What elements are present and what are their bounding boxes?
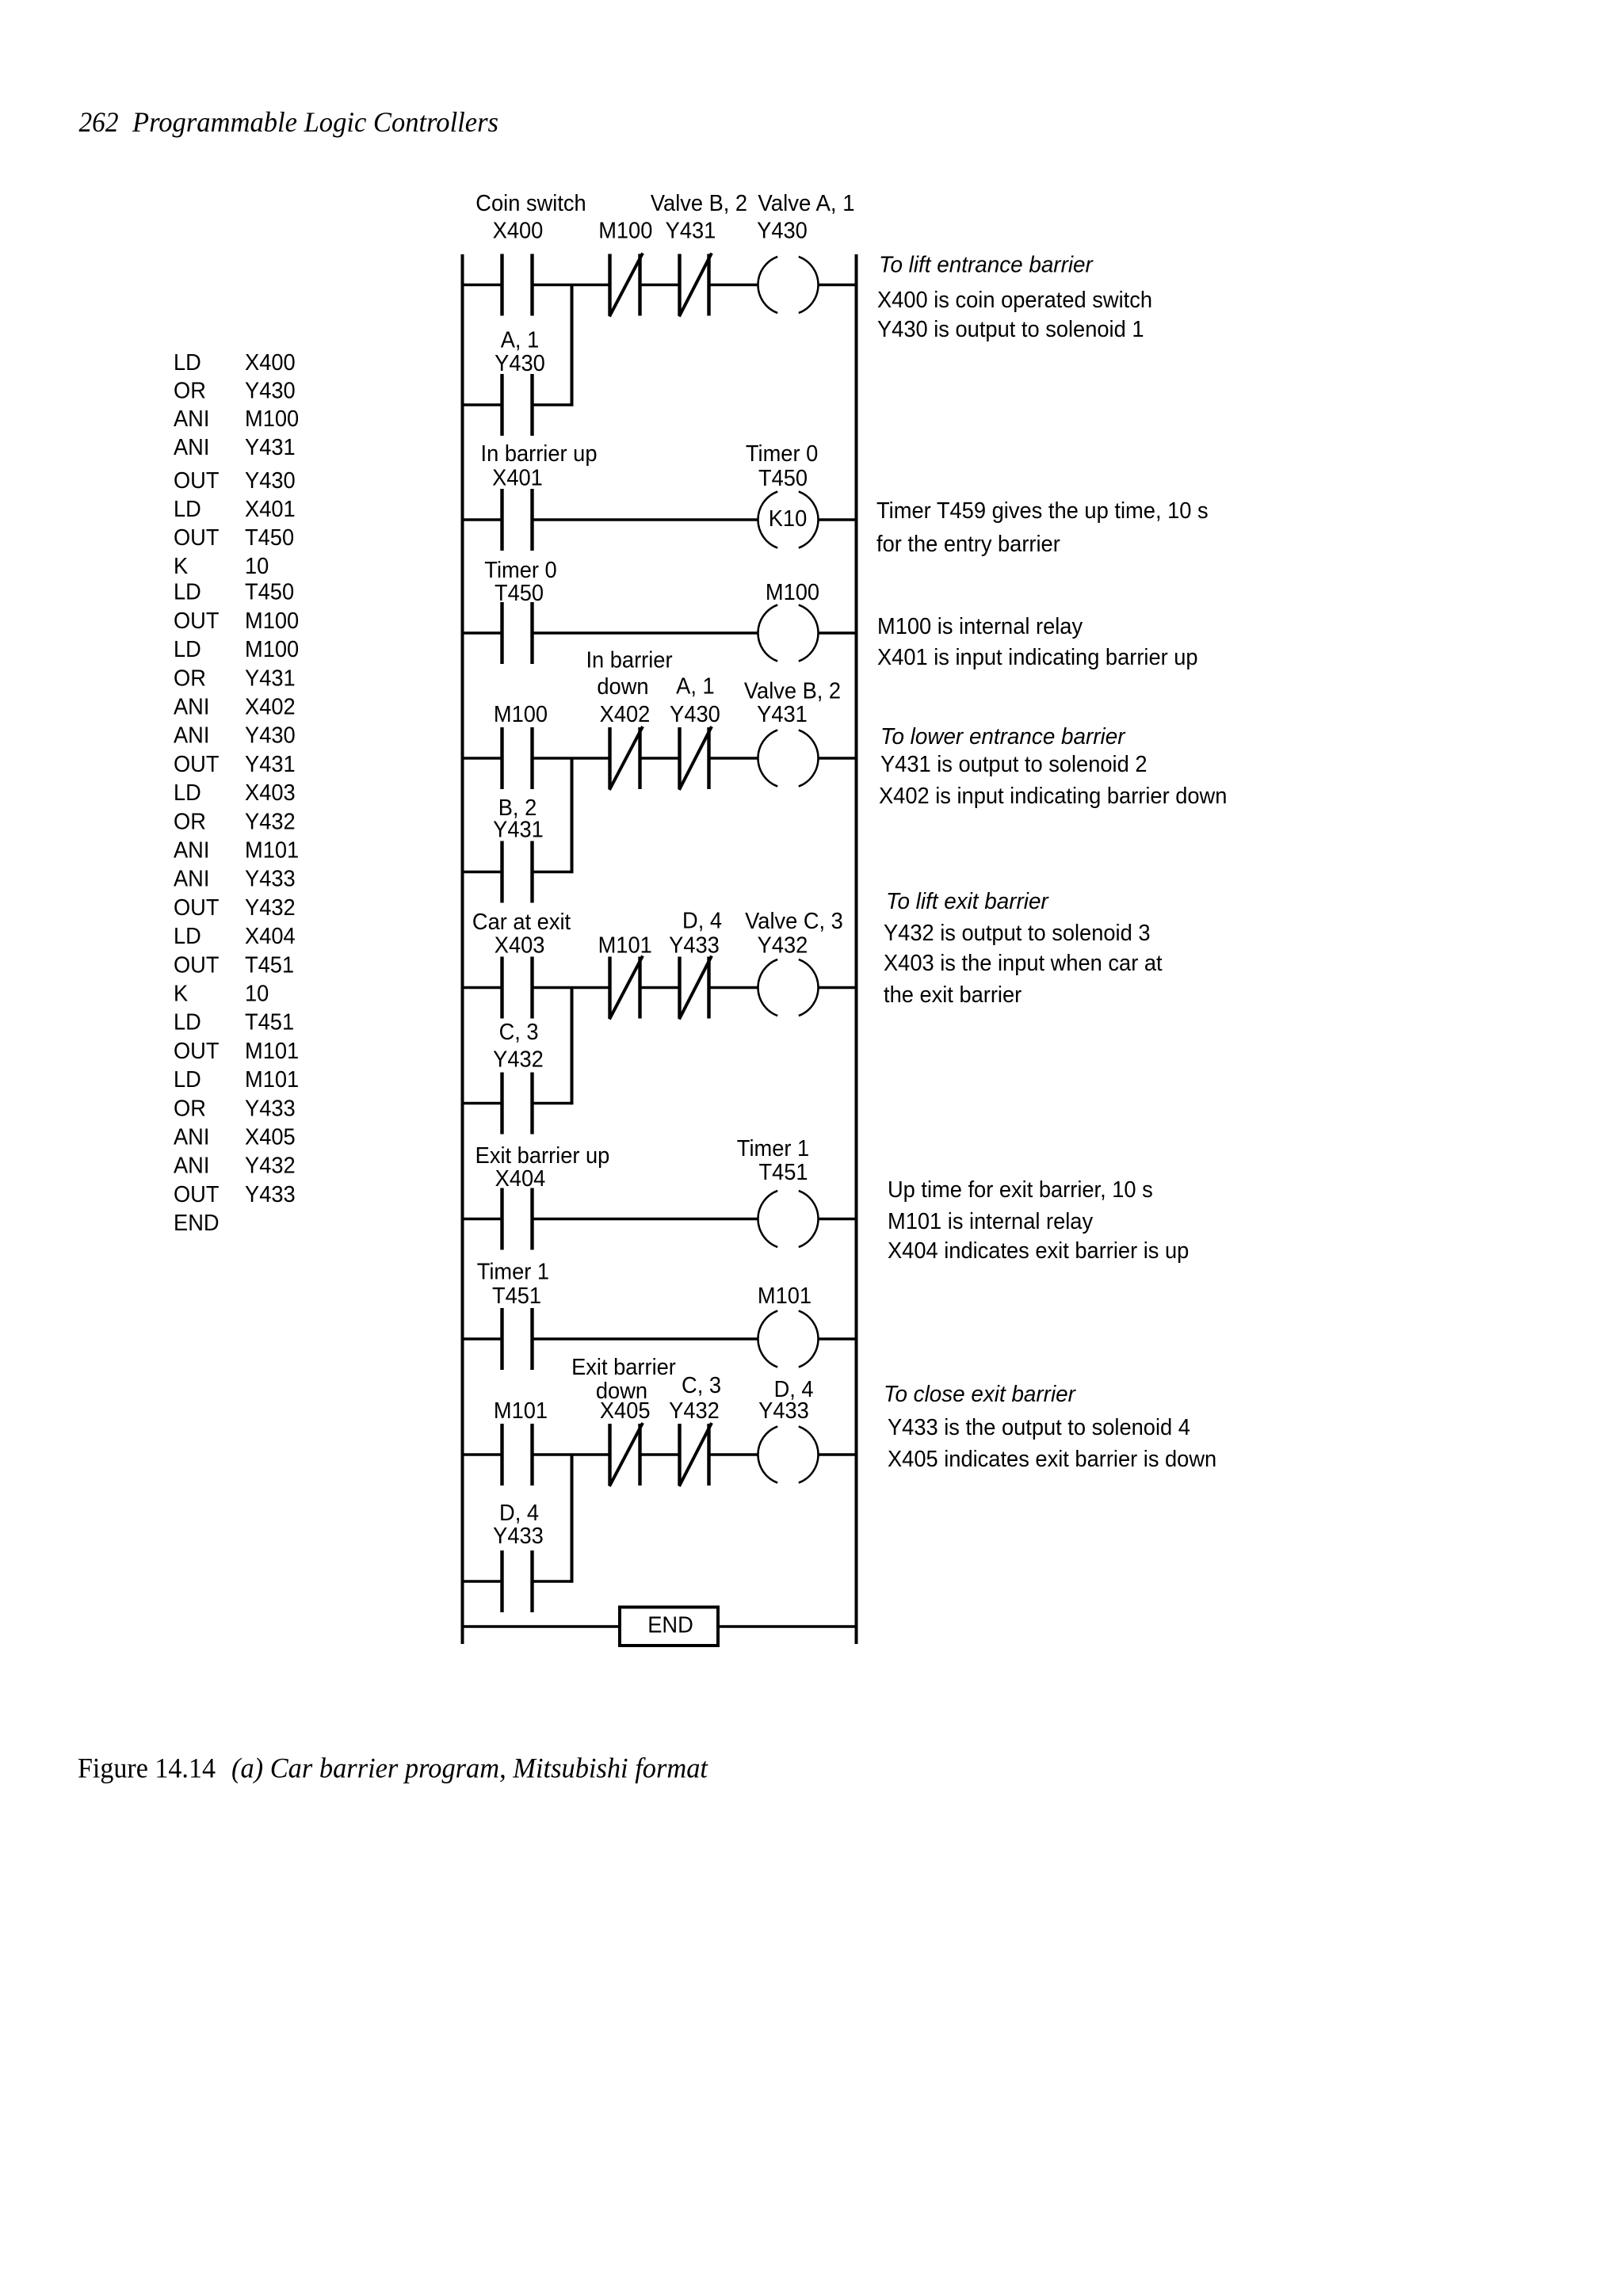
svg-text:Exit barrier up: Exit barrier up [475,1143,610,1169]
wire rung 6 [463,1218,857,1221]
svg-text:Y430: Y430 [245,723,296,749]
svg-text:OR: OR [174,666,206,691]
svg-text:M101: M101 [494,1398,548,1424]
svg-text:Y433: Y433 [245,1096,296,1121]
svg-text:T451: T451 [758,1160,808,1185]
svg-text:ANI: ANI [174,406,209,432]
svg-text:M101 is internal relay: M101 is internal relay [888,1209,1094,1234]
NC contact M100, rung 1 [598,219,652,317]
svg-text:for the entry barrier: for the entry barrier [876,532,1060,557]
NC contact Y432 (C, 3), rung 8 [669,1373,721,1486]
coil Y433 (D, 4), rung 8 [758,1377,818,1483]
coil Y431 (Valve B, 2), rung 4 [744,679,841,787]
svg-text:X404: X404 [245,924,296,949]
svg-text:M100: M100 [245,406,299,432]
svg-text:To lower entrance barrier: To lower entrance barrier [880,724,1126,749]
svg-text:T450: T450 [245,580,294,605]
branch 4 wire [463,1580,572,1583]
svg-text:OR: OR [174,1096,206,1121]
svg-text:Y432: Y432 [493,1047,544,1073]
svg-text:M101: M101 [245,838,299,864]
svg-text:Valve B, 2: Valve B, 2 [744,679,841,704]
svg-text:Timer 1: Timer 1 [477,1260,549,1285]
svg-text:X400: X400 [245,350,296,376]
svg-text:M101: M101 [598,933,652,959]
svg-text:Programmable Logic Controllers: Programmable Logic Controllers [132,106,498,138]
svg-text:X402: X402 [600,702,651,727]
svg-text:OUT: OUT [174,525,220,551]
contact X401 (In barrier up), rung 2 [481,441,598,551]
contact Y431 (B, 2) parallel branch 2 [493,795,544,903]
svg-text:T451: T451 [245,1010,294,1035]
svg-text:Y430: Y430 [757,219,808,244]
svg-text:In barrier up: In barrier up [481,441,598,467]
svg-text:X404: X404 [495,1166,546,1192]
svg-text:D, 4: D, 4 [499,1501,539,1526]
svg-text:ANI: ANI [174,838,209,864]
svg-text:In barrier: In barrier [586,648,672,673]
svg-text:T450: T450 [758,466,808,491]
svg-text:Y430 is output to solenoid 1: Y430 is output to solenoid 1 [877,317,1144,342]
contact T450 (Timer 0), rung 3 [484,558,556,664]
svg-text:A, 1: A, 1 [501,327,540,353]
coil Y430 (Valve A, 1), rung 1 [757,191,854,313]
svg-text:X401 is input indicating barri: X401 is input indicating barrier up [877,645,1198,670]
svg-text:A, 1: A, 1 [676,674,715,700]
svg-text:Exit barrier: Exit barrier [571,1355,676,1380]
svg-text:T451: T451 [245,952,294,978]
instruction list (Mitsubishi mnemonics) [174,350,299,1236]
svg-text:LD: LD [174,497,201,522]
svg-text:K: K [174,554,189,579]
svg-text:ANI: ANI [174,723,209,749]
svg-text:Timer 0: Timer 0 [484,558,556,583]
svg-text:Y431 is output to solenoid 2: Y431 is output to solenoid 2 [880,752,1148,777]
contact Y430 (A, 1) parallel branch 1 [495,327,545,436]
timer coil T451 (Timer 1), rung 6 [737,1136,819,1247]
svg-text:M101: M101 [245,1067,299,1093]
svg-text:LD: LD [174,780,201,806]
NC contact Y431 (Valve B, 2), rung 1 [651,191,747,317]
svg-text:Y430: Y430 [245,468,296,494]
svg-text:OUT: OUT [174,952,220,978]
svg-text:OUT: OUT [174,1039,220,1064]
svg-text:Y430: Y430 [245,379,296,404]
wire rung 7 [463,1337,857,1341]
svg-text:OUT: OUT [174,1182,220,1207]
svg-text:Y432 is output to solenoid 3: Y432 is output to solenoid 3 [884,921,1151,946]
svg-text:LD: LD [174,580,201,605]
svg-text:K: K [174,982,189,1007]
svg-text:Y433: Y433 [245,1182,296,1207]
svg-text:Y432: Y432 [245,1154,296,1179]
svg-text:(a) Car barrier program, Mitsu: (a) Car barrier program, Mitsubishi form… [231,1753,708,1784]
svg-text:Y432: Y432 [245,895,296,921]
svg-text:ANI: ANI [174,435,209,460]
contact X403 (Car at exit), rung 5 [472,910,571,1019]
svg-text:LD: LD [174,1067,201,1093]
svg-text:Y431: Y431 [245,666,296,691]
contact X404 (Exit barrier up), rung 6 [475,1143,610,1250]
wire rung 4 [463,757,857,760]
svg-text:To lift exit barrier: To lift exit barrier [886,889,1049,914]
svg-text:M100 is internal relay: M100 is internal relay [877,614,1083,639]
svg-text:Y430: Y430 [495,351,545,376]
svg-text:OR: OR [174,809,206,834]
svg-text:Y431: Y431 [757,702,808,727]
contact T451 (Timer 1), rung 7 [477,1260,549,1371]
coil M100, rung 3 [758,580,819,662]
svg-text:X402: X402 [245,695,296,720]
contact Y432 (C, 3) parallel branch 3 [493,1020,544,1135]
svg-text:M100: M100 [598,219,652,244]
svg-text:LD: LD [174,637,201,662]
svg-text:OUT: OUT [174,752,220,777]
svg-text:Figure 14.14: Figure 14.14 [78,1753,216,1784]
svg-text:X404 indicates exit barrier is: X404 indicates exit barrier is up [888,1238,1189,1264]
branch 4 junction connector [571,1455,574,1583]
svg-text:X400: X400 [493,219,544,244]
svg-text:X401: X401 [245,497,296,522]
svg-text:Y431: Y431 [245,752,296,777]
svg-text:Y433: Y433 [245,867,296,892]
wire rung 3 [463,631,857,635]
NC contact X405 (Exit barrier down), rung 8 [571,1355,676,1486]
svg-text:T450: T450 [495,581,544,606]
svg-text:X403: X403 [495,933,545,959]
coil Y432 (Valve C, 3), rung 5 [745,909,843,1016]
svg-text:M101: M101 [245,1039,299,1064]
annotation notes column [876,253,1227,1473]
svg-text:Timer 1: Timer 1 [737,1136,809,1161]
svg-text:OUT: OUT [174,895,220,921]
svg-text:Y433: Y433 [493,1524,544,1549]
coil M101, rung 7 [758,1283,819,1367]
svg-text:X402 is input indicating barri: X402 is input indicating barrier down [879,784,1227,809]
NC contact Y430 (A, 1), rung 4 [670,674,720,791]
svg-text:X403 is the input when car at: X403 is the input when car at [884,951,1163,976]
wire rung 1 [463,284,857,287]
svg-text:M101: M101 [758,1283,811,1309]
svg-text:X405: X405 [600,1398,651,1424]
svg-text:262: 262 [79,106,119,138]
svg-text:X401: X401 [492,465,543,490]
svg-text:Valve C, 3: Valve C, 3 [745,909,843,934]
wire rung 9 (END rung) [463,1625,857,1628]
svg-text:10: 10 [245,982,269,1007]
branch 3 junction connector [571,988,574,1105]
page header [79,106,499,138]
svg-text:M100: M100 [766,580,819,605]
svg-text:Y431: Y431 [666,219,716,244]
wire rung 8 [463,1453,857,1456]
figure caption [78,1753,708,1784]
timer coil T450 (Timer 0) value K10, rung 2 [746,441,819,548]
svg-text:Y433: Y433 [758,1398,809,1424]
svg-text:10: 10 [245,554,269,579]
svg-text:OR: OR [174,379,206,404]
svg-text:ANI: ANI [174,867,209,892]
svg-text:Y433: Y433 [669,933,720,959]
NC contact Y433 (D, 4), rung 5 [669,909,722,1020]
left power rail [461,254,464,1644]
right power rail [855,254,858,1644]
svg-text:D, 4: D, 4 [682,909,722,934]
svg-text:Valve A, 1: Valve A, 1 [758,191,854,216]
contact X400 (coin switch), rung 1 [475,191,586,316]
svg-text:Valve B, 2: Valve B, 2 [651,191,747,216]
svg-text:END: END [647,1613,693,1638]
END instruction box, rung 9 [620,1608,718,1646]
svg-text:X405 indicates exit barrier is: X405 indicates exit barrier is down [888,1447,1216,1472]
svg-text:Y431: Y431 [245,435,296,460]
svg-text:LD: LD [174,1010,201,1035]
svg-text:the exit barrier: the exit barrier [884,982,1022,1008]
svg-text:Y432: Y432 [245,809,296,834]
svg-text:Up time for exit barrier, 10 s: Up time for exit barrier, 10 s [888,1177,1153,1203]
svg-text:Y432: Y432 [758,933,808,959]
svg-text:M100: M100 [494,702,548,727]
svg-text:down: down [597,674,648,700]
svg-text:OUT: OUT [174,468,220,494]
svg-text:C, 3: C, 3 [499,1020,539,1045]
contact M100, rung 4 [494,702,548,789]
svg-text:X403: X403 [245,780,296,806]
svg-text:ANI: ANI [174,1154,209,1179]
svg-text:C, 3: C, 3 [682,1373,721,1398]
svg-text:T451: T451 [492,1283,541,1309]
svg-text:Y430: Y430 [670,702,720,727]
svg-text:Y433 is the output to solenoid: Y433 is the output to solenoid 4 [888,1415,1190,1440]
svg-text:X400 is coin operated switch: X400 is coin operated switch [877,288,1152,313]
contact M101, rung 8 [494,1398,548,1486]
wire rung 2 [463,518,857,521]
svg-text:Coin switch: Coin switch [475,191,586,216]
svg-text:M100: M100 [245,608,299,634]
svg-text:LD: LD [174,350,201,376]
svg-text:To lift entrance barrier: To lift entrance barrier [879,253,1094,278]
svg-text:Y431: Y431 [493,818,544,843]
branch 2 wire [463,871,572,874]
contact Y433 (D, 4) parallel branch 4 [493,1501,544,1612]
svg-text:ANI: ANI [174,1125,209,1150]
svg-text:K10: K10 [769,506,808,532]
svg-text:M100: M100 [245,637,299,662]
svg-text:Timer T459 gives the up time,: Timer T459 gives the up time, 10 s [876,498,1209,524]
svg-text:OUT: OUT [174,608,220,634]
wire rung 5 [463,986,857,990]
svg-text:T450: T450 [245,525,294,551]
branch 1 wire [463,403,572,406]
branch 1 junction connector [571,285,574,406]
NC contact M101, rung 5 [598,933,652,1020]
svg-text:To close exit barrier: To close exit barrier [884,1382,1076,1407]
svg-text:Timer 0: Timer 0 [746,441,818,467]
branch 2 junction connector [571,758,574,873]
svg-text:ANI: ANI [174,695,209,720]
svg-text:Car at exit: Car at exit [472,910,571,935]
svg-text:X405: X405 [245,1125,296,1150]
svg-text:Y432: Y432 [669,1398,720,1424]
branch 3 wire [463,1102,572,1105]
svg-text:END: END [174,1211,220,1236]
svg-text:LD: LD [174,924,201,949]
NC contact X402 (In barrier down), rung 4 [586,648,672,791]
